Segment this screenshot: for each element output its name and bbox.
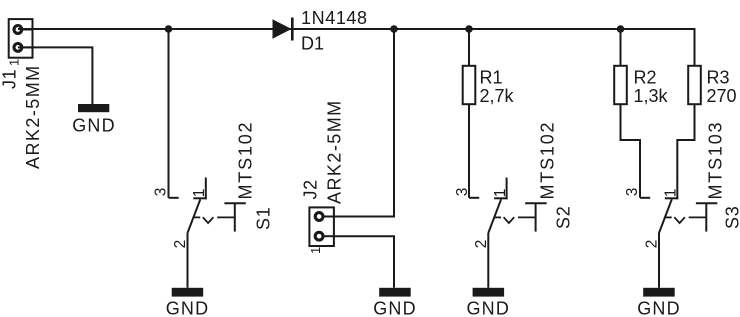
wire J2 pin1 to GND (334, 236, 394, 288)
wire node to S1 pin3 (168, 29, 170, 198)
svg-text:ARK2-5MM: ARK2-5MM (325, 99, 345, 204)
svg-text:J1: J1 (0, 69, 20, 89)
resistor R3 (688, 66, 701, 104)
svg-text:3: 3 (624, 188, 641, 197)
svg-text:S1: S1 (253, 206, 273, 230)
svg-text:2: 2 (644, 240, 661, 249)
svg-text:1,3k: 1,3k (634, 86, 669, 106)
svg-text:1: 1 (6, 59, 21, 66)
svg-text:GND: GND (373, 299, 417, 317)
ground symbol GND at S3 (637, 288, 681, 317)
svg-text:MTS102: MTS102 (236, 121, 256, 200)
resistor R2 (614, 66, 627, 104)
svg-text:2,7k: 2,7k (480, 86, 515, 106)
wire top rail from J1 to R3 corner (18, 28, 695, 30)
wire node to J2 pin2 (334, 29, 394, 217)
svg-text:S3: S3 (723, 205, 740, 229)
svg-text:1: 1 (492, 189, 509, 198)
junction node at S1 branch (165, 25, 173, 33)
svg-text:1: 1 (191, 189, 208, 198)
svg-text:1: 1 (663, 189, 680, 198)
switch S3 (640, 177, 717, 288)
svg-text:GND: GND (466, 299, 510, 317)
svg-text:MTS103: MTS103 (706, 121, 726, 200)
svg-text:3: 3 (454, 188, 471, 197)
wire J1 pin2 to GND (18, 47, 93, 104)
junction node at R2 branch (617, 25, 625, 33)
wire R1 to S2 pin3 (468, 104, 470, 198)
svg-text:3: 3 (153, 188, 170, 197)
ground symbol GND at S2 (466, 288, 510, 317)
connector J1 (9, 19, 33, 58)
svg-text:GND: GND (166, 299, 210, 317)
ground symbol GND at S1 (166, 288, 210, 317)
svg-text:R3: R3 (707, 68, 730, 88)
junction node at J2 branch (390, 25, 398, 33)
ground symbol GND at J2 (373, 288, 417, 317)
svg-text:GND: GND (72, 116, 116, 136)
ground symbol GND at J1 (72, 104, 116, 136)
svg-text:J2: J2 (300, 179, 320, 199)
wire node to R1 (468, 29, 470, 66)
svg-text:R1: R1 (480, 68, 503, 88)
wire node to R2 (620, 29, 622, 66)
svg-text:MTS102: MTS102 (538, 121, 558, 200)
svg-text:1: 1 (308, 247, 323, 254)
wire R3 to S3 pin1 (677, 104, 694, 177)
junction node at R1 branch (465, 25, 473, 33)
svg-text:GND: GND (637, 299, 681, 317)
svg-text:R2: R2 (634, 68, 657, 88)
svg-text:270: 270 (707, 86, 737, 106)
diode D1 (273, 18, 293, 41)
resistor R1 (463, 66, 476, 104)
svg-text:D1: D1 (301, 33, 324, 53)
switch S1 (169, 178, 246, 288)
svg-text:2: 2 (172, 240, 189, 249)
svg-text:ARK2-5MM: ARK2-5MM (23, 64, 43, 169)
wire R2 to S3 pin3 (621, 104, 641, 198)
svg-text:S2: S2 (554, 205, 574, 229)
wire right corner down to R3 (694, 28, 696, 66)
svg-text:2: 2 (473, 240, 490, 249)
connector J2 (309, 207, 334, 246)
svg-text:1N4148: 1N4148 (301, 8, 368, 28)
switch S2 (469, 178, 547, 288)
